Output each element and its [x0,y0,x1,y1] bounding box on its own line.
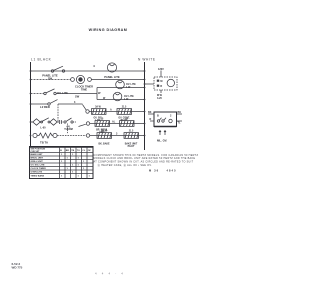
svg-text:1 W: 1 W [124,98,129,101]
label 120V [158,68,164,71]
terminal bake row [86,134,89,137]
label 3A W [95,106,101,109]
pin 2 [170,115,172,118]
lamp oven lite A [116,80,125,89]
svg-text:L1 BLACK: L1 BLACK [31,58,52,62]
svg-text:BK: BK [148,111,152,114]
chart table frame [30,147,94,179]
wire lamp box top stub [160,71,162,78]
label BK. BAKE [98,142,110,145]
svg-text:TIMED BAKE: TIMED BAKE [31,175,45,178]
wire sig row [89,111,144,113]
title WIRING DIAGRAM [89,28,128,32]
label BAKE UNIT PILOT [125,142,138,148]
wire bake row [90,135,145,137]
wire row4 L2 red [31,103,49,105]
svg-text:R: R [160,85,162,88]
svg-text:4 4 4 - 4: 4 4 4 - 4 [95,271,125,275]
svg-text:OVEN LITE: OVEN LITE [31,172,43,174]
svg-text:CIRCUIT: CIRCUIT [31,151,41,153]
label L2 RED [40,105,50,109]
oven lamp assembly box (dashed) [154,77,177,90]
terminal TB [33,133,37,137]
svg-text:OV. CONT.: OV. CONT. [118,117,130,119]
svg-text:A: A [110,109,112,112]
label OV. THERM [64,125,73,131]
pin B [157,115,159,118]
resistor heater TB-TA [37,133,53,138]
switch fuse row [40,118,50,123]
svg-text:SW: SW [48,77,53,81]
thermostat internal contacts [157,118,172,123]
terminal sig row [86,110,89,113]
svg-text:OV. LITE: OV. LITE [57,91,68,95]
terminal clock right [88,78,92,82]
note ref M 36 [149,168,177,172]
net label L1 BLACK [31,58,52,62]
label 4 (wire gauge) [93,64,95,68]
wire stub BK right [177,111,183,114]
svg-text:WIRING DIAGRAM: WIRING DIAGRAM [89,28,128,32]
svg-text:GRILL UNIT: GRILL UNIT [31,161,44,163]
label BK value [101,131,108,133]
switch panel lite SW [51,66,64,72]
net label N WHITE [138,58,156,62]
svg-text:WD 775: WD 775 [12,265,23,269]
svg-text:B: B [157,115,159,118]
label OV. SIG. LITE [94,117,103,122]
svg-text:TB TA: TB TA [40,140,48,144]
svg-text:R: R [150,118,152,121]
svg-text:SW: SW [75,95,80,99]
label W row2 [98,91,101,95]
contact pair terminals [57,120,63,124]
wire stub TL right [177,121,183,124]
svg-text:BK W: BK W [101,131,108,133]
label BR. BROIL UNIT [96,129,108,134]
svg-text:TO: TO [77,150,80,152]
lamp panel lite [107,63,116,72]
svg-text:4-20: 4-20 [157,97,162,100]
label 24 ohm [125,118,128,121]
label A [110,109,112,112]
wire branch B [97,99,145,101]
motor clock timer [76,75,84,83]
oven thermostat box [154,112,177,127]
svg-text:M 36 4845: M 36 4845 [149,168,177,172]
label 13 ohm [101,119,104,121]
switch oven selector [64,118,76,123]
label OV LAMP [157,94,163,100]
doc number WD 775 [12,265,23,269]
svg-text:BAKE UNIT: BAKE UNIT [31,153,44,156]
label OV. LITE 1W (A) [126,83,136,89]
wire L2 drop to fuse row [57,104,59,122]
svg-text:THERM: THERM [64,128,73,131]
label W branch B [103,97,106,100]
svg-text:TB: TB [71,150,74,152]
label L-60 [40,127,46,130]
probe arrows under thermostat [159,131,166,136]
label 21.5 [129,131,134,133]
junction dots L1 bus [30,70,32,136]
label 21.5 ohm [122,107,127,109]
svg-text:120V: 120V [158,68,164,71]
wire row2 clock feed [31,79,71,81]
wire N bus vertical [144,62,146,150]
fuse F1 (diamond) [33,119,40,125]
svg-text:ML. OV.: ML. OV. [157,138,167,142]
lamp oven lite B [113,92,122,101]
switch oven lite SW [44,89,56,95]
svg-text:BROIL UNIT: BROIL UNIT [31,158,44,160]
label PANEL LITE [104,75,120,79]
label AL [112,121,116,124]
note paragraph [94,154,199,167]
label CLOCK TIMER TIME [75,84,93,91]
label ML. OV. [157,138,167,142]
heater GRILL UNIT (hatched) [120,121,135,127]
label TB TA [40,140,48,144]
label OV. LITE 1W (B) [124,95,134,101]
wire broil row [90,123,145,125]
table column lines [60,147,88,179]
label OV. LITE [57,91,68,95]
wire row3 oven lite switch line [31,93,98,95]
svg-text:OV. SIG. LITE: OV. SIG. LITE [31,165,45,167]
junction dots N bus [144,70,146,136]
svg-text:AL: AL [112,121,116,124]
heater OV CONT PILOT (hatched) [117,109,132,115]
label SW [75,95,80,99]
svg-text:L-60: L-60 [40,127,46,130]
wire L1 bus vertical [30,62,32,147]
svg-text:PANEL LITE: PANEL LITE [104,75,120,79]
svg-text:BK. BAKE: BK. BAKE [98,142,110,145]
lamp oven lamp [167,79,174,86]
svg-text:L2 RED: L2 RED [40,105,50,109]
wire clock to N bus [91,79,144,81]
label 3 [116,133,118,136]
svg-text:N WHITE: N WHITE [138,58,156,62]
heater OV SIG (hatched) [92,109,107,115]
label OV. CONT. PILOT [118,117,130,122]
terminal TA [53,133,57,137]
table row labels [31,153,47,178]
wire stub R left [150,118,155,121]
table row lines [30,153,94,174]
wire fuse row stub [31,121,34,123]
svg-text:TIME: TIME [81,87,87,91]
terminal broil row [86,122,89,125]
wire diagonal to broil row [79,124,86,126]
wire bake row dashed [57,135,86,137]
page footer marks [95,271,125,275]
label PANEL LITE SW [42,74,58,81]
wire lamp box bottom stub [160,90,162,93]
svg-text:21.5: 21.5 [129,131,134,133]
switch L2 [48,100,58,106]
heater BAKE UNIT PILOT (hatched) [124,133,139,139]
svg-text:CLOCK TIMER: CLOCK TIMER [31,168,47,170]
heater BR BROIL UNIT (hatched) [95,121,110,127]
fuse F2 (diamond) [50,119,57,125]
doc number 6-52-2 [12,262,21,266]
svg-text:Ⓐ HEATER CASE, Ⓑ ALL OK • S: Ⓐ HEATER CASE, Ⓑ ALL OK • SEE OV. [98,163,153,167]
table header text [31,149,92,154]
svg-text:1 W: 1 W [126,86,131,89]
svg-text:PILOT: PILOT [128,146,135,148]
svg-text:3A W: 3A W [95,106,101,109]
svg-text:21.5: 21.5 [122,107,127,109]
wire diagonal to sig row [58,101,86,110]
table cell marks [61,154,91,178]
wire stub BK left [148,111,154,114]
switch door contacts [157,80,163,88]
wire selector drop (dashed) [67,124,69,135]
svg-text:M: M [160,80,162,83]
svg-text:BAKE UNIT: BAKE UNIT [125,142,138,145]
svg-text:BR: BR [66,150,70,152]
wire branch A [97,87,145,89]
wire row1 L1 to panel lite [31,70,145,72]
svg-text:BK: BK [178,111,182,114]
heater BK BAKE UNIT (hatched) [97,133,112,139]
wire N bus to oven lamp box [145,83,155,85]
terminal clock left [71,78,75,82]
wire lamp branch bracket [96,88,98,100]
